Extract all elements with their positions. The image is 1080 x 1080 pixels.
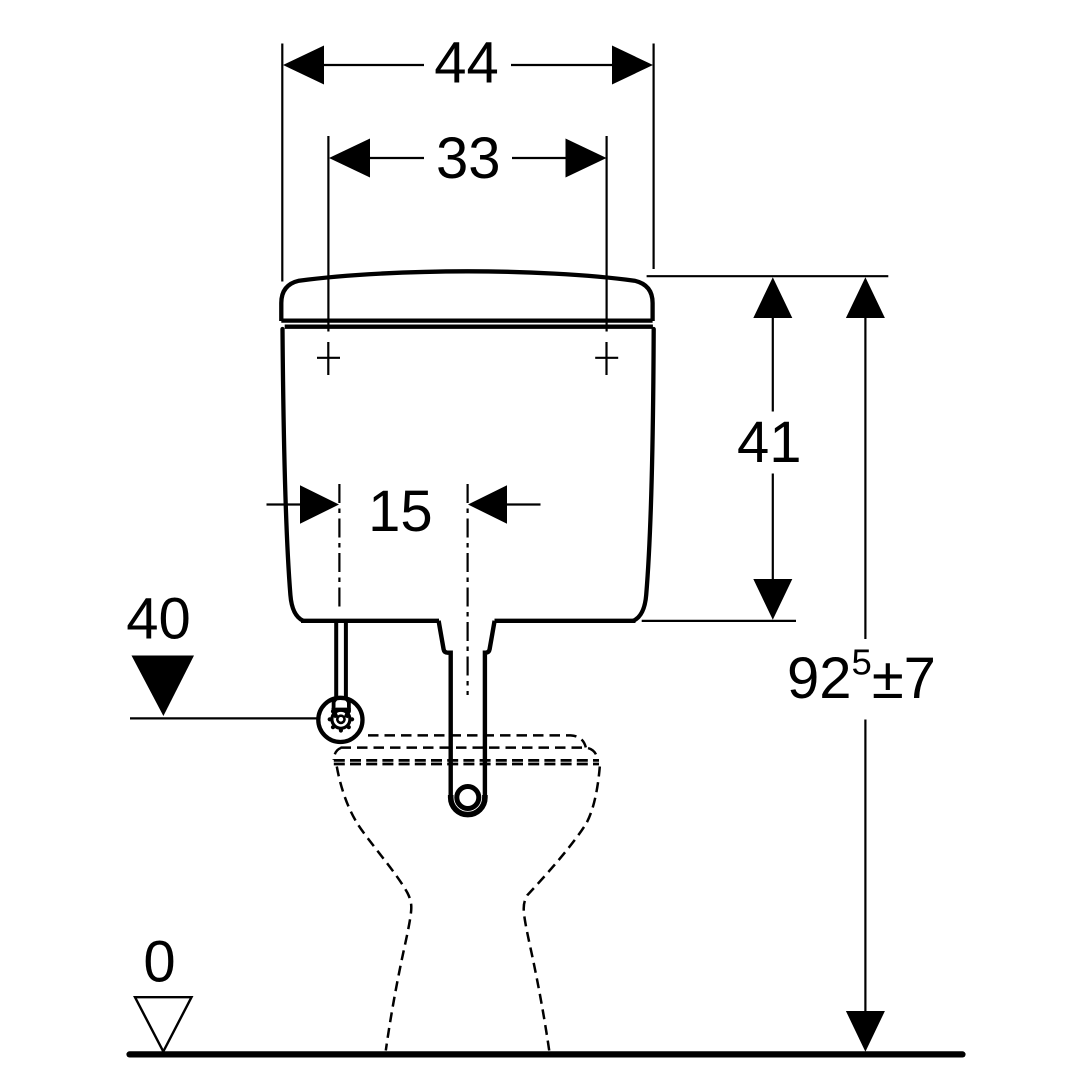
tank right wall [634, 329, 654, 621]
dim 92.5 line segment upper [864, 318, 866, 639]
tank top edge [285, 325, 653, 329]
dim 92.5 line segment lower [864, 720, 866, 1012]
dim 92.5 arrowhead down [846, 1011, 885, 1052]
bowl rim dashed line 2 [341, 748, 598, 761]
cistern lid outline [281, 271, 652, 321]
bowl rim left corner dashed arc [334, 748, 341, 760]
supply valve bonnet arc [334, 698, 349, 708]
ground line [130, 1051, 963, 1057]
dim 15 tail line right [507, 503, 541, 505]
dim 33 arrowhead left [329, 139, 370, 178]
dim 41 arrowhead up [753, 277, 792, 318]
supply pipe left line [334, 623, 338, 698]
valve gear center dot [339, 717, 344, 722]
svg-text:0: 0 [143, 930, 175, 995]
dim 41 extension line bottom [642, 620, 796, 622]
flush valve cone and pipe left side [439, 621, 451, 798]
tank left wall [283, 329, 304, 621]
valve gear hub [336, 714, 346, 724]
dim 33 tail line right [512, 157, 566, 159]
dim 92.5 arrowhead up [846, 277, 885, 318]
level 40 leader line [130, 717, 319, 719]
flush valve cone and pipe right side [485, 621, 495, 798]
svg-text:33: 33 [436, 126, 501, 191]
svg-text:40: 40 [126, 587, 191, 652]
dim 33 arrowhead right [566, 139, 607, 178]
bowl rim dashed double line lower [334, 763, 599, 766]
dim 33 extension line right [605, 136, 607, 332]
supply valve ear left [332, 700, 336, 709]
bowl outline dashed right [524, 767, 600, 1051]
supply valve outer circle [318, 698, 362, 742]
tank bottom edge right part [495, 619, 636, 623]
dim 41 arrowhead down [753, 579, 792, 620]
fastening cross mark left [317, 342, 340, 375]
supply valve shoulder band [332, 708, 351, 711]
valve gear ring [332, 710, 350, 728]
bowl rim dashed line 1 [368, 735, 586, 747]
supply valve cheek right [346, 711, 349, 718]
dim 33 tail line left [370, 157, 424, 159]
supply pipe right line [344, 623, 348, 698]
supply valve ear right [347, 700, 351, 709]
dim 41 extension line top [647, 275, 889, 277]
svg-text:44: 44 [434, 31, 499, 96]
bowl outline dashed left [337, 767, 411, 1051]
supply valve cheek left [334, 711, 337, 718]
dim 44 tail line right [511, 64, 612, 66]
dim 41 line segment lower [772, 474, 774, 580]
flush pipe opening circle [457, 787, 479, 809]
dim 44 tail line left [324, 64, 424, 66]
dim 44 extension line right [652, 44, 654, 270]
dim 41 line segment upper [772, 318, 774, 412]
svg-text:15: 15 [368, 479, 433, 544]
dim 44 extension line left [281, 44, 283, 282]
valve gear teeth [328, 709, 355, 732]
bowl rim dashed double line upper [334, 759, 599, 762]
datum 40 filled triangle [132, 656, 195, 717]
center line left (supply) [338, 484, 340, 609]
flush pipe rounded end cap [451, 795, 485, 815]
dim 44 arrowhead right [612, 46, 653, 85]
cistern lid bottom edge [281, 318, 652, 322]
svg-text:41: 41 [737, 410, 802, 475]
fastening cross mark right [595, 342, 618, 375]
datum 0 open triangle [135, 997, 192, 1051]
dim 15 tail line left [267, 503, 301, 505]
tank bottom edge left part [301, 619, 439, 623]
center line right (flush pipe) [467, 484, 469, 695]
dim 33 extension line left [327, 136, 329, 332]
dim 15 arrowhead left [300, 485, 339, 524]
dim 44 arrowhead left [283, 46, 324, 85]
dim 15 arrowhead right [468, 485, 507, 524]
